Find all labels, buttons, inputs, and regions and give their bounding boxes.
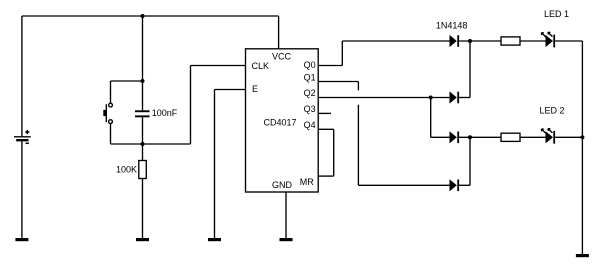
diode D3: [450, 131, 460, 143]
node cap/switch bottom: [141, 142, 145, 146]
op-amp U1 CD4017 body: [246, 49, 319, 192]
node right rail: [580, 135, 584, 139]
svg-text:Q0: Q0: [304, 60, 316, 70]
svg-text:Q3: Q3: [304, 104, 316, 114]
wire parallel bottom rail to CLK: [111, 143, 191, 145]
switch S1 pushbutton: [103, 81, 112, 144]
node D1/D2 output junction: [468, 39, 472, 43]
svg-text:LED 2: LED 2: [540, 105, 565, 115]
ground battery: [15, 238, 28, 241]
wire Q0 to top row: [318, 41, 449, 66]
diode D1 1N4148: [450, 35, 460, 47]
wire Q1 upper segment: [318, 82, 358, 91]
wire Q3 stub: [318, 112, 331, 114]
wire VCC: [278, 16, 280, 49]
wire Q4 to MR loop: [318, 129, 334, 176]
wire Q2 branch down to row3: [431, 98, 450, 138]
node top junction: [141, 14, 145, 18]
diode D4: [450, 179, 460, 191]
capacitor C1 100nF: [135, 81, 178, 144]
wire top rail V+: [22, 15, 279, 17]
svg-text:100K: 100K: [116, 165, 137, 175]
svg-text:Q1: Q1: [304, 73, 316, 83]
resistor R2: [501, 37, 520, 45]
wire LED1 to right rail: [555, 40, 582, 42]
wire parallel top rail: [111, 80, 143, 82]
wire right rail upper: [581, 41, 583, 137]
node Q2 branch: [429, 96, 433, 100]
svg-text:VCC: VCC: [272, 52, 292, 62]
node cap/switch top: [141, 79, 145, 83]
wire D3 to R3: [459, 136, 501, 138]
svg-text:1N4148: 1N4148: [436, 20, 468, 30]
ground IC: [280, 238, 293, 241]
svg-text:LED 1: LED 1: [544, 9, 569, 19]
diode D2: [450, 91, 460, 103]
svg-text:Q2: Q2: [304, 88, 316, 98]
ground R1: [136, 238, 149, 241]
wire junction down to switch/cap rail: [142, 16, 144, 81]
wire D2 up to junction: [459, 41, 470, 98]
ground right rail: [576, 254, 589, 257]
ground E: [208, 238, 221, 241]
wire right rail lower: [581, 137, 583, 254]
wire CLK: [191, 66, 246, 145]
wire D4 up to row3 junction: [459, 137, 470, 185]
wire D1 to R2: [459, 40, 501, 42]
resistor R1 100K: [116, 144, 146, 238]
svg-text:CD4017: CD4017: [264, 117, 297, 127]
wire battery positive lead: [21, 16, 23, 136]
wire GND pin to ground: [285, 192, 287, 238]
node D3/D4 output junction: [468, 135, 472, 139]
wire LED2 to right rail: [555, 136, 582, 138]
svg-text:CLK: CLK: [252, 61, 270, 71]
wire Q1 lower segment to row4: [358, 105, 449, 186]
svg-text:GND: GND: [272, 180, 293, 190]
LED2: [541, 129, 555, 144]
wire R2 to LED1: [520, 40, 546, 42]
resistor R3: [501, 133, 520, 141]
wire E to ground: [215, 90, 246, 239]
wire Q2 row: [318, 97, 449, 99]
wire R3 to LED2: [520, 136, 546, 138]
svg-text:100nF: 100nF: [152, 108, 178, 118]
svg-text:E: E: [252, 84, 258, 94]
battery B1: [14, 130, 31, 143]
svg-text:MR: MR: [300, 177, 314, 187]
wire battery negative lead: [21, 141, 23, 238]
svg-text:Q4: Q4: [304, 120, 316, 130]
LED1: [541, 32, 555, 47]
